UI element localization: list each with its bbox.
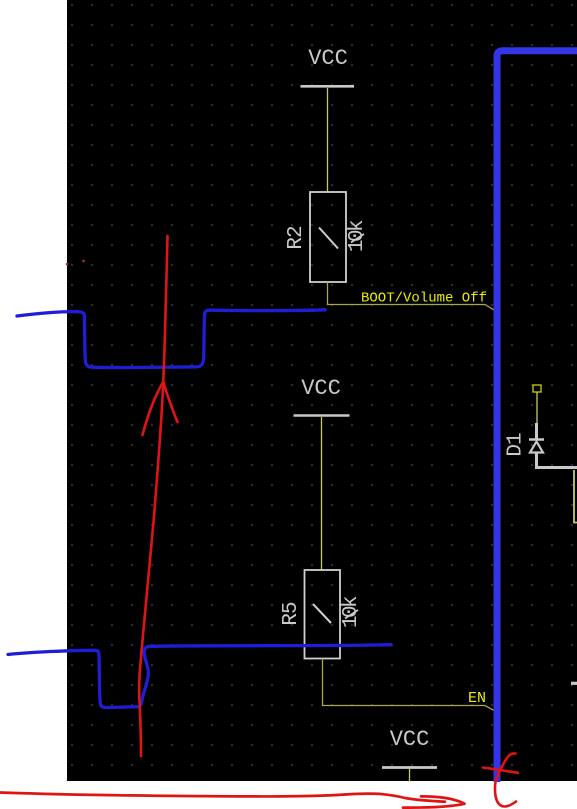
svg-text:10k: 10k [346, 220, 369, 252]
resistor R2 [310, 192, 346, 282]
svg-text:BOOT/Volume Off: BOOT/Volume Off [361, 291, 487, 307]
svg-text:VCC: VCC [301, 376, 341, 401]
power symbol VCC (top, feeds R2) [301, 46, 355, 86]
annotation red ink speck B [82, 260, 85, 263]
wire R2 pin 2 to net BOOT/Volume Off [328, 282, 494, 310]
wire pad to D1 anode lead [536, 392, 538, 423]
annotation red cross-out mark (over blue box end) [483, 753, 518, 806]
wire VCC to R2 pin 1 [327, 88, 329, 192]
annotation red ink speck A [66, 263, 69, 266]
wire VCC to R5 pin 1 [321, 417, 323, 570]
slashed zero of 10k (R2) [351, 234, 364, 243]
svg-text:R2: R2 [285, 226, 308, 250]
annotation red arrow (bottom, pointing right) [0, 793, 465, 808]
annotation blue ink line (upper, around BOOT net) [17, 310, 325, 368]
annotation blue ink line (lower, around EN net) [8, 645, 391, 708]
diode triangle [530, 442, 543, 453]
anode lead, turns right off-sheet [537, 453, 577, 468]
annotation blue highlight box (thick blue border, rounded corner) [497, 51, 577, 782]
wire stub top right edge [571, 682, 577, 685]
annotation red arrow (long vertical, pointing up) [139, 236, 177, 756]
power symbol VCC (middle, feeds R5) [294, 376, 350, 416]
wire right edge (below D1, exits right) [574, 470, 577, 523]
pad square (pin 1 of D1) [533, 385, 541, 392]
svg-text:10k: 10k [340, 596, 363, 628]
slashed zero of 10k (R5) [345, 610, 358, 619]
diode D1 [529, 385, 577, 468]
svg-text:R5: R5 [280, 602, 303, 626]
cathode bar [529, 438, 544, 441]
wire R5 pin 2 to net EN [323, 659, 494, 711]
svg-text:EN: EN [468, 690, 486, 707]
svg-text:D1: D1 [505, 433, 528, 457]
resistor R5 [305, 570, 341, 659]
power symbol VCC (bottom, clipped by sheet edge) [382, 727, 437, 781]
svg-text:VCC: VCC [308, 46, 348, 71]
cathode lead [535, 423, 538, 440]
svg-text:VCC: VCC [390, 727, 430, 752]
